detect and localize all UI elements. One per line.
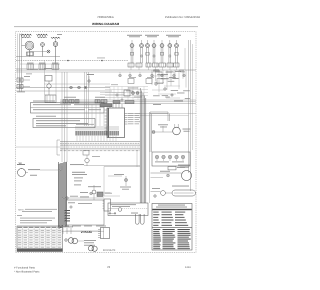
svg-text:WIRING DIAGRAM: WIRING DIAGRAM [92, 22, 120, 26]
svg-text:* Non-Illustrated Parts: * Non-Illustrated Parts [14, 270, 40, 273]
svg-text:E00C8H73: E00C8H73 [103, 249, 116, 252]
svg-text:1216: 1216 [185, 266, 191, 269]
svg-text:7390KES0FA: 7390KES0FA [97, 15, 114, 19]
svg-text:Publication No: 5995422594: Publication No: 5995422594 [165, 15, 201, 19]
svg-text:NOTE:: NOTE: [18, 209, 25, 212]
svg-text:72: 72 [107, 265, 111, 269]
svg-text:# Functional Parts: # Functional Parts [14, 267, 36, 270]
